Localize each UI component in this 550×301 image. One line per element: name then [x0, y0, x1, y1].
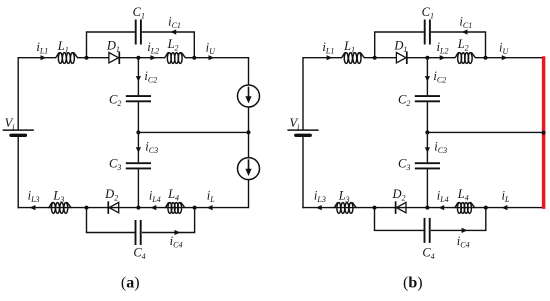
- arrow iL (b): [502, 205, 508, 210]
- arrow iC1 (a): [170, 29, 176, 34]
- wire: C2 to mid node (a): [137, 102, 139, 132]
- wire: C1 loop left riser (a): [86, 32, 88, 58]
- wire: D2 to C3 junction (b): [396, 207, 428, 209]
- capacitor C1 (a): [136, 20, 141, 45]
- diode D2 (a): [108, 201, 118, 214]
- wire: bottom rail left (a): [18, 207, 71, 209]
- junction mid node (b): [425, 130, 429, 134]
- arrow iC2 (a): [136, 76, 141, 82]
- inductor L4 (a): [165, 203, 186, 214]
- wire: top rail (b): [302, 57, 342, 59]
- inductor L3 (a): [48, 203, 71, 214]
- wire: C4 loop right riser (a): [194, 208, 196, 233]
- wire: D2 to C3 junction (a): [108, 207, 138, 209]
- junction node P1 (b): [373, 56, 377, 60]
- inductor L3 (b): [334, 203, 357, 214]
- wire: right rail bottom segment (a): [248, 180, 250, 208]
- capacitor C1 (b): [425, 20, 430, 45]
- junction node C3-bottom (b): [425, 206, 429, 210]
- wire: C1 loop left riser (b): [374, 32, 376, 58]
- wire: C1 loop top right segment (b): [431, 31, 486, 33]
- wire: C4 loop bottom right (b): [431, 229, 487, 231]
- arrow iL (a): [207, 205, 213, 210]
- wire: top rail (a): [18, 57, 57, 59]
- current source 2 (a): [238, 158, 260, 180]
- short-circuit load bar (red) (b): [542, 56, 546, 209]
- wire: node P2 down to C2 (b): [426, 58, 428, 96]
- arrow iL1 (b): [327, 55, 333, 60]
- inductor L2 (b): [454, 53, 476, 64]
- arrow iC3 (b): [425, 147, 430, 153]
- wire: C4 loop bottom right (a): [142, 232, 195, 234]
- wire: C2 to mid node (b): [426, 102, 428, 132]
- wire: left rail lower segment (a): [17, 135, 19, 208]
- svg-text:(a): (a): [121, 274, 140, 291]
- arrow iC3 (a): [136, 147, 141, 153]
- wire: C1 loop top left segment (a): [86, 31, 135, 33]
- inductor L1 (b): [341, 53, 365, 64]
- wire: L2 to right corner (a): [185, 57, 249, 59]
- wire: C4 loop left riser (a): [86, 208, 88, 233]
- wire: C1 loop right riser (b): [485, 32, 487, 58]
- inductor L1 (a): [55, 53, 78, 64]
- arrow iC4 (b): [462, 228, 468, 233]
- junction mid node (a): [136, 130, 140, 134]
- arrow iL2 (b): [440, 55, 446, 60]
- wire: left rail upper segment (b): [302, 58, 304, 130]
- capacitor C4 (b): [425, 218, 430, 243]
- wire: bottom rail right (b): [427, 207, 545, 209]
- wire: left rail upper segment (a): [17, 58, 19, 130]
- wire: C3 to bottom rail (b): [426, 169, 428, 207]
- voltage source Vi (b): [287, 130, 318, 135]
- capacitor C3 (a): [126, 163, 151, 168]
- junction node P3 (b): [484, 56, 488, 60]
- capacitor C2 (a): [126, 96, 151, 101]
- junction node A (b): [373, 206, 377, 210]
- arrow iL4 (a): [151, 205, 157, 210]
- arrow iC1 (b): [462, 29, 468, 34]
- arrow iC2 (b): [425, 76, 430, 82]
- wire: D1 to L2 (a): [119, 57, 165, 59]
- wire: right rail top segment (a): [248, 58, 250, 85]
- wire: C1 loop top left segment (b): [374, 31, 424, 33]
- wire: node P2 down to C2 (a): [137, 58, 139, 96]
- wire: mid node to C3 (a): [137, 132, 139, 162]
- svg-text:(b): (b): [403, 274, 423, 291]
- wire: L3 to D2 (b): [356, 207, 406, 209]
- arrow iU (a): [209, 55, 215, 60]
- wire: D1 to L2 (b): [407, 57, 456, 59]
- junction node B (b): [484, 206, 488, 210]
- wire: C4 loop left riser (b): [374, 208, 376, 231]
- wire: L1 to D1 (b): [364, 57, 397, 59]
- diode D1 (a): [109, 51, 119, 64]
- junction node P1 (a): [85, 56, 89, 60]
- wire: L3 to D2 (a): [71, 207, 119, 209]
- wire: bottom rail right (a): [138, 207, 249, 209]
- capacitor C4 (a): [136, 220, 141, 245]
- wire: C4 loop right riser (b): [485, 208, 487, 231]
- junction node after D1 (b): [425, 56, 429, 60]
- wire: C1 loop top right segment (a): [142, 31, 195, 33]
- junction red mid node (b): [542, 131, 546, 135]
- arrow iL4 (b): [438, 205, 444, 210]
- arrow iL2 (a): [150, 55, 156, 60]
- capacitor C2 (b): [415, 96, 440, 101]
- arrow iL1 (a): [41, 55, 47, 60]
- inductor L4 (b): [454, 203, 475, 214]
- junction node P3 (a): [192, 56, 196, 60]
- diode D1 (b): [396, 51, 406, 64]
- arrow iL3 (a): [30, 205, 36, 210]
- junction node C3-bottom (a): [136, 206, 140, 210]
- arrow iL3 (b): [316, 205, 322, 210]
- wire: left rail lower segment (b): [302, 135, 304, 208]
- wire: L1 to D1 (a): [77, 57, 109, 59]
- wire: L2 to right corner (b): [475, 57, 544, 59]
- capacitor C3 (b): [415, 163, 440, 168]
- voltage source Vi (a): [3, 130, 34, 135]
- junction right mid node (a): [247, 130, 251, 134]
- wire: C3 to bottom rail (a): [137, 169, 139, 207]
- wire: C4 loop bottom left (a): [86, 232, 135, 234]
- wire: middle link (a): [138, 131, 249, 133]
- arrow iU (b): [502, 55, 508, 60]
- junction node A (a): [85, 206, 89, 210]
- wire: C1 loop right riser (a): [193, 32, 195, 58]
- wire: mid node to C3 (b): [426, 132, 428, 162]
- junction node after D1 (a): [136, 56, 140, 60]
- wire: C4 loop bottom left (b): [374, 229, 424, 231]
- arrow iC4 (a): [175, 230, 181, 235]
- junction node B (a): [193, 206, 197, 210]
- current source 1 (a): [238, 85, 260, 107]
- wire: right rail between sources upper (a): [248, 107, 250, 158]
- wire: middle link (b): [427, 131, 545, 133]
- inductor L2 (a): [164, 53, 186, 64]
- wire: bottom rail left (b): [302, 207, 356, 209]
- diode D2 (b): [396, 201, 406, 214]
